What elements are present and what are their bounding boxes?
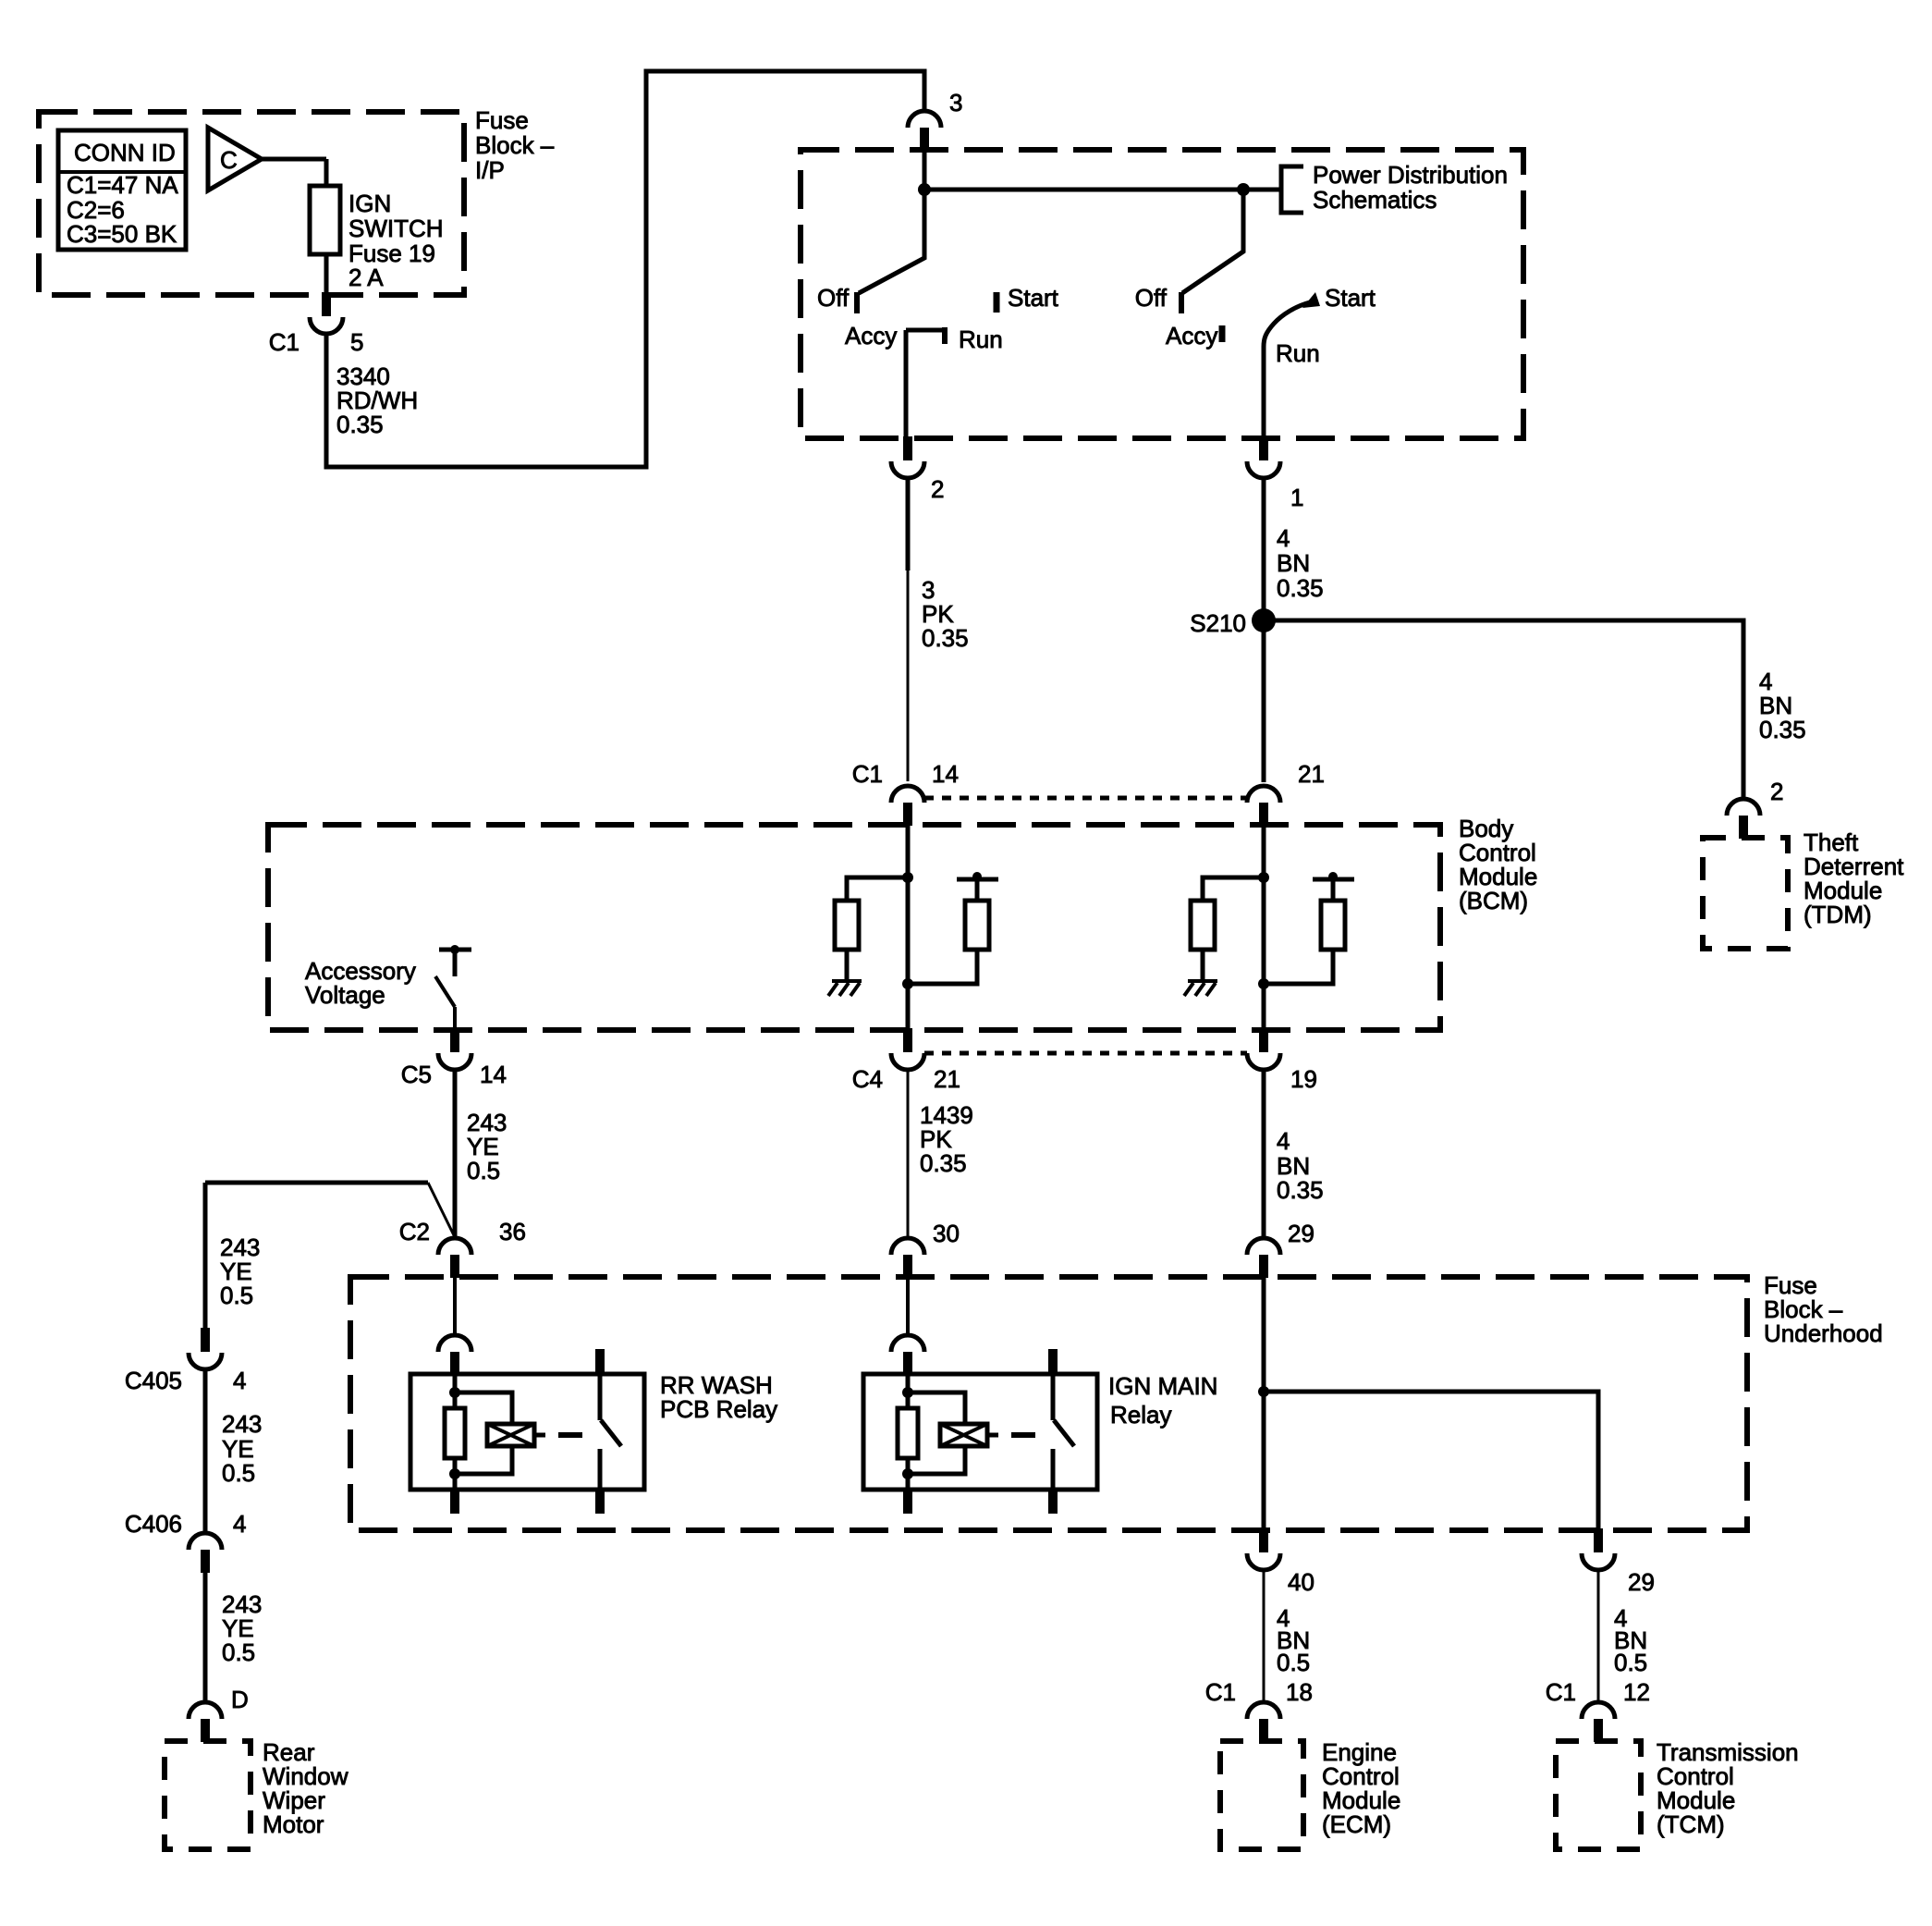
svg-text:2: 2 [931,475,944,503]
svg-text:0.5: 0.5 [467,1157,500,1184]
svg-text:Fuse: Fuse [475,106,529,134]
svg-text:4: 4 [233,1510,246,1538]
svg-text:Block –: Block – [475,131,555,159]
svg-text:Off: Off [817,284,850,312]
svg-text:0.35: 0.35 [1759,716,1806,743]
svg-text:(TCM): (TCM) [1657,1810,1725,1838]
svg-text:IGN: IGN [348,190,391,217]
svg-text:1: 1 [1290,484,1303,511]
svg-text:0.5: 0.5 [1614,1649,1647,1676]
svg-text:Accy: Accy [845,322,897,350]
svg-text:CONN ID: CONN ID [74,139,176,166]
svg-text:36: 36 [499,1218,526,1245]
svg-text:I/P: I/P [475,156,505,184]
svg-text:0.35: 0.35 [920,1149,967,1177]
svg-text:2: 2 [1770,778,1783,805]
svg-text:C: C [220,146,238,174]
svg-text:4: 4 [1277,524,1290,552]
svg-text:Accy: Accy [1166,322,1217,350]
svg-text:19: 19 [1290,1065,1317,1093]
svg-text:PCB Relay: PCB Relay [660,1395,777,1423]
svg-text:C2: C2 [399,1218,430,1245]
svg-text:Schematics: Schematics [1313,186,1437,214]
svg-text:Voltage: Voltage [305,981,385,1009]
svg-text:Motor: Motor [263,1810,324,1838]
svg-text:D: D [231,1686,249,1713]
svg-text:Underhood: Underhood [1764,1319,1883,1347]
svg-text:30: 30 [933,1220,960,1247]
svg-text:C1: C1 [1205,1678,1236,1706]
svg-text:243: 243 [222,1410,262,1438]
svg-text:Power Distribution: Power Distribution [1313,161,1508,189]
svg-text:0.35: 0.35 [922,624,969,652]
svg-text:Start: Start [1325,284,1376,312]
svg-text:S210: S210 [1190,609,1246,637]
svg-text:0.5: 0.5 [222,1459,255,1487]
svg-text:C3=50 BK: C3=50 BK [67,220,177,248]
svg-text:21: 21 [1298,760,1325,788]
svg-text:(BCM): (BCM) [1459,887,1528,914]
svg-text:0.5: 0.5 [1277,1649,1310,1676]
svg-text:14: 14 [480,1061,507,1088]
svg-text:Start: Start [1008,284,1059,312]
svg-text:Relay: Relay [1110,1401,1171,1429]
svg-text:Run: Run [1276,339,1320,367]
svg-text:0.35: 0.35 [1277,574,1324,602]
svg-text:SWITCH: SWITCH [348,215,444,242]
svg-text:0.5: 0.5 [222,1638,255,1666]
svg-text:(ECM): (ECM) [1322,1810,1391,1838]
svg-text:21: 21 [934,1065,960,1093]
svg-text:29: 29 [1288,1220,1314,1247]
svg-text:14: 14 [932,760,959,788]
svg-text:C1: C1 [269,328,300,356]
svg-text:0.5: 0.5 [220,1282,253,1309]
svg-text:C405: C405 [125,1367,182,1394]
svg-text:4: 4 [1277,1127,1290,1155]
svg-text:C4: C4 [852,1065,883,1093]
svg-text:29: 29 [1628,1568,1655,1596]
svg-text:Run: Run [959,325,1003,353]
svg-text:C406: C406 [125,1510,182,1538]
svg-text:12: 12 [1623,1678,1650,1706]
svg-text:IGN MAIN: IGN MAIN [1108,1372,1217,1400]
svg-text:0.35: 0.35 [1277,1176,1324,1204]
svg-text:BN: BN [1277,549,1310,577]
svg-text:5: 5 [350,328,363,356]
svg-text:C1: C1 [1546,1678,1576,1706]
svg-text:C1: C1 [852,760,883,788]
svg-text:C1=47 NA: C1=47 NA [67,171,178,199]
svg-text:3: 3 [949,89,962,117]
svg-text:Off: Off [1135,284,1168,312]
svg-text:2 A: 2 A [348,264,384,291]
svg-text:C5: C5 [401,1061,432,1088]
svg-text:18: 18 [1286,1678,1313,1706]
svg-text:4: 4 [233,1367,246,1394]
svg-text:0.35: 0.35 [336,411,384,438]
svg-text:(TDM): (TDM) [1804,901,1872,928]
svg-text:40: 40 [1288,1568,1314,1596]
